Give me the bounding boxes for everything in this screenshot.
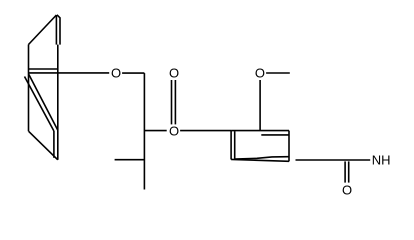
svg-text:O: O — [255, 66, 265, 81]
svg-text:O: O — [111, 66, 121, 81]
svg-text:NH: NH — [372, 153, 391, 168]
svg-text:O: O — [169, 123, 179, 138]
svg-text:O: O — [342, 182, 352, 197]
svg-text:O: O — [169, 66, 179, 81]
